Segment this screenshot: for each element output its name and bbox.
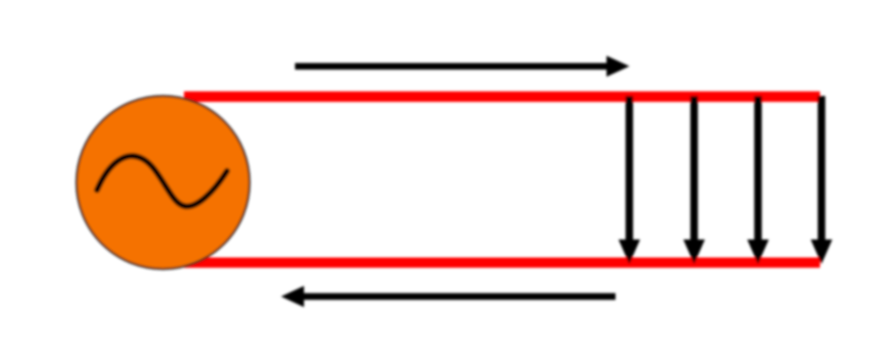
arrow: return wave direction (bottom, pointing left) — [281, 286, 616, 307]
arrow: E-field line 4 (vertical, down) — [811, 96, 833, 264]
wire: top conductor (red) — [184, 91, 820, 102]
AC source V1: circle — [77, 96, 250, 269]
AC source V1: sine symbol — [97, 156, 227, 206]
arrow: forward wave direction (top, pointing right) — [295, 56, 630, 77]
arrow: E-field line 3 (vertical, down) — [747, 96, 769, 264]
wire: bottom conductor (red) — [184, 258, 820, 268]
arrow: E-field line 2 (vertical, down) — [683, 96, 705, 264]
arrow: E-field line 1 (vertical, down) — [619, 96, 641, 264]
